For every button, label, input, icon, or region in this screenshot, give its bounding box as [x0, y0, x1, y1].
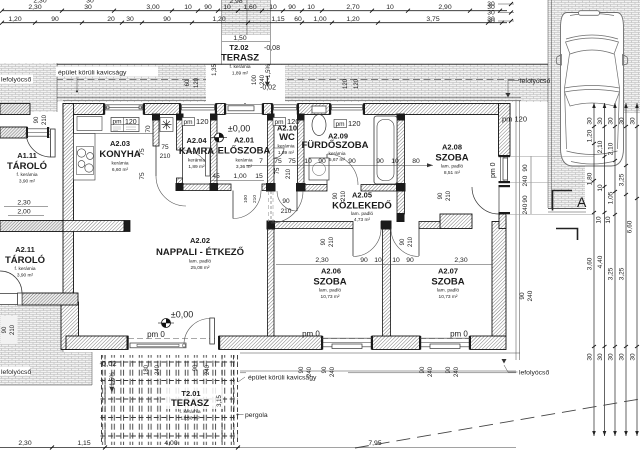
partition nappali / szoba divider vertical — [268, 229, 275, 337]
entrance door top (A2 lakas) — [224, 104, 264, 115]
svg-text:4,40: 4,40 — [597, 255, 604, 268]
dims inside A1.11 — [4, 200, 48, 216]
entrance arrow triangle — [237, 96, 254, 105]
svg-text:kerámia: kerámia — [111, 161, 128, 167]
svg-text:8,51 m²: 8,51 m² — [444, 170, 461, 176]
gravel left lower block — [0, 305, 92, 385]
window tags pm 120 top — [111, 118, 139, 132]
svg-text:30: 30 — [84, 4, 92, 11]
door kamra arc — [183, 150, 211, 178]
windows top wall — [103, 104, 365, 115]
svg-text:WC: WC — [279, 132, 295, 143]
neighbour walls left (A1.11 / A2.11) — [0, 104, 78, 306]
svg-text:75: 75 — [139, 172, 146, 180]
dimension chain row 1 top — [2, 4, 507, 11]
svg-text:90: 90 — [333, 192, 339, 199]
svg-text:1,50: 1,50 — [233, 35, 246, 42]
svg-text:20: 20 — [107, 16, 115, 23]
svg-text:T2.01: T2.01 — [181, 389, 200, 398]
svg-text:240: 240 — [522, 175, 529, 186]
svg-text:10: 10 — [304, 158, 312, 165]
svg-text:120: 120 — [125, 119, 137, 126]
svg-text:1,00: 1,00 — [233, 173, 246, 180]
svg-text:210: 210 — [329, 236, 335, 247]
door dim 75/210 wc rotated — [275, 167, 292, 179]
svg-text:90: 90 — [322, 366, 328, 373]
svg-text:kerámia: kerámia — [235, 158, 252, 164]
svg-text:pm: pm — [113, 119, 122, 126]
door dim 75/210 konyha — [160, 144, 171, 160]
boiler symbol konyha — [160, 118, 173, 132]
svg-text:180: 180 — [144, 364, 150, 375]
svg-text:T2.02: T2.02 — [229, 43, 248, 52]
partition konyha right — [153, 115, 159, 147]
room label A2.03 KONYHA — [99, 139, 140, 173]
door szoba A2.06 arc — [353, 229, 381, 257]
room label A2.04 KAMRA — [179, 136, 214, 170]
svg-text:10: 10 — [307, 4, 315, 11]
window right wall A2.08 (pm 0) — [499, 155, 511, 183]
svg-text:3,25: 3,25 — [619, 267, 626, 280]
svg-text:f. kerámia: f. kerámia — [179, 409, 200, 415]
svg-text:1,00: 1,00 — [313, 16, 326, 23]
building exterior top wall — [63, 104, 510, 115]
gravel edge lines bottom — [240, 370, 516, 372]
partition konyha stub wall — [63, 221, 130, 232]
svg-text:120: 120 — [194, 77, 200, 88]
partition wc right — [298, 115, 305, 192]
door dim rotated A1.11 — [34, 114, 48, 125]
windows bottom wall — [321, 336, 471, 350]
room label A2.01 ELOSZOBA — [218, 136, 271, 171]
lefolyocso label bottom left — [0, 367, 31, 377]
svg-text:10: 10 — [374, 257, 382, 264]
wall A2.08 / A2.07 divider — [440, 214, 506, 229]
furdo washing machine — [309, 158, 329, 180]
svg-text:pm: pm — [184, 119, 193, 126]
lefolyocso label bottom right — [502, 359, 550, 377]
svg-text:1,5%: 1,5% — [110, 372, 116, 386]
partition furdo / szoba A2.08 — [397, 115, 405, 215]
section mark A top — [553, 191, 588, 211]
door right wall A2.08 — [472, 185, 510, 214]
svg-text:pm: pm — [336, 121, 345, 128]
svg-text:90: 90 — [522, 164, 529, 172]
konyha dim 70/75/75 right — [139, 115, 170, 191]
svg-text:A2.07: A2.07 — [438, 267, 458, 276]
svg-text:90: 90 — [420, 366, 426, 373]
wc corner basin — [274, 148, 284, 158]
svg-text:90: 90 — [299, 366, 305, 373]
svg-text:kerámia: kerámia — [328, 151, 345, 157]
svg-text:75: 75 — [274, 158, 282, 165]
small 30 dims top right — [487, 1, 514, 25]
svg-text:90: 90 — [193, 364, 199, 371]
partition wc-furdo bottom — [298, 185, 398, 192]
svg-text:2,30: 2,30 — [18, 440, 31, 447]
svg-text:A2.08: A2.08 — [442, 143, 462, 152]
svg-text:90: 90 — [400, 238, 406, 245]
room label A2.05 KOZLEKEDO — [332, 191, 392, 224]
svg-text:pm 120: pm 120 — [502, 115, 527, 124]
entrance label A2 LAKAS — [235, 89, 255, 94]
svg-text:4,73 m²: 4,73 m² — [354, 217, 371, 223]
gravel band top (kavicsagy) — [35, 64, 548, 102]
svg-text:3,75: 3,75 — [426, 16, 439, 23]
svg-text:6,60: 6,60 — [627, 220, 634, 233]
svg-text:A2.04: A2.04 — [186, 136, 207, 145]
svg-text:1,15: 1,15 — [271, 16, 284, 23]
svg-text:6,60 m²: 6,60 m² — [112, 167, 129, 173]
svg-text:7: 7 — [259, 158, 263, 165]
svg-text:240: 240 — [428, 366, 434, 377]
svg-text:lefolyócső: lefolyócső — [520, 78, 550, 85]
svg-text:90: 90 — [522, 195, 529, 203]
svg-text:120: 120 — [354, 78, 360, 89]
door wc arc — [277, 191, 297, 211]
svg-text:30: 30 — [619, 353, 626, 361]
svg-text:10: 10 — [392, 257, 400, 264]
door konyha opening arc — [156, 146, 186, 206]
svg-text:3,60: 3,60 — [587, 257, 594, 270]
partition kamra left — [177, 115, 183, 185]
svg-text:épület körüli kavicságy: épület körüli kavicságy — [58, 70, 127, 77]
interior dim row y177 eloszoba door — [210, 173, 264, 181]
interior dim row y163 — [246, 158, 433, 167]
svg-text:210: 210 — [252, 195, 258, 203]
right chains labels — [587, 117, 637, 361]
svg-text:f. kerámia: f. kerámia — [14, 266, 35, 272]
kavicsagy label bottom — [238, 372, 348, 383]
svg-text:2,10: 2,10 — [597, 140, 604, 153]
svg-text:A2.01: A2.01 — [234, 136, 254, 145]
svg-text:30: 30 — [587, 353, 594, 361]
svg-text:120: 120 — [287, 117, 300, 126]
svg-text:2,90: 2,90 — [438, 4, 451, 11]
svg-text:30: 30 — [608, 353, 615, 361]
right chains arrowheads top/bottom — [592, 103, 639, 436]
exterior left wall — [61, 104, 79, 350]
bottom dim 7,95 — [238, 440, 520, 448]
room label A2.07 SZOBA — [431, 267, 464, 301]
svg-text:1,15: 1,15 — [77, 440, 90, 447]
room label A2.06 SZOBA — [313, 267, 346, 301]
radiator eloszoba — [206, 148, 211, 176]
svg-text:90: 90 — [204, 4, 212, 11]
window A1.11 top wall — [26, 127, 49, 138]
svg-text:75: 75 — [161, 144, 169, 151]
svg-text:TERASZ: TERASZ — [171, 398, 209, 409]
svg-text:2,10: 2,10 — [608, 142, 615, 155]
door eloszoba-kozlekedo arc (90/210) — [271, 191, 303, 223]
svg-text:240: 240 — [527, 290, 534, 301]
tick marks row2 — [0, 21, 504, 25]
svg-text:60: 60 — [185, 79, 191, 86]
svg-text:210: 210 — [281, 208, 292, 215]
svg-text:10: 10 — [391, 158, 399, 165]
svg-text:30: 30 — [86, 0, 94, 5]
door furdoszoba arc — [327, 154, 358, 185]
svg-text:90: 90 — [163, 16, 171, 23]
svg-text:210: 210 — [160, 153, 171, 160]
svg-text:90: 90 — [321, 238, 327, 245]
svg-text:210: 210 — [42, 114, 48, 125]
dimension chain row 2 top — [2, 16, 507, 23]
svg-text:75: 75 — [139, 148, 146, 156]
section mark bottom — [556, 229, 578, 241]
svg-text:10: 10 — [386, 4, 394, 11]
door dims rotated at szoba doors — [321, 190, 452, 247]
svg-text:30: 30 — [126, 16, 134, 23]
svg-text:A2.03: A2.03 — [110, 139, 130, 148]
room label A2.08 SZOBA — [435, 143, 468, 177]
T2.02 terasz labels top — [206, 35, 285, 103]
partition wc left — [268, 115, 275, 185]
svg-text:lam. padló: lam. padló — [189, 259, 211, 265]
svg-text:10,73 m²: 10,73 m² — [439, 294, 458, 300]
svg-text:SZOBA: SZOBA — [435, 153, 468, 164]
kitchen counter — [74, 117, 154, 181]
svg-text:lam. padló: lam. padló — [351, 211, 373, 217]
svg-text:TERASZ: TERASZ — [221, 53, 259, 64]
svg-text:120: 120 — [196, 117, 209, 126]
partition kozlekedo bottom — [268, 222, 441, 229]
svg-text:KONYHA: KONYHA — [99, 149, 140, 160]
svg-text:2,30: 2,30 — [454, 257, 467, 264]
window dims rotated below bottom wall — [299, 358, 476, 377]
svg-text:3,15: 3,15 — [217, 395, 223, 407]
gravel parking area right — [548, 0, 640, 212]
partition kamra right — [211, 115, 218, 185]
svg-text:NAPPALI - ÉTKEZŐ: NAPPALI - ÉTKEZŐ — [156, 246, 244, 258]
svg-text:1,20: 1,20 — [212, 16, 225, 23]
svg-text:30: 30 — [587, 117, 594, 125]
svg-text:240: 240 — [307, 366, 313, 377]
junction blocks — [152, 114, 406, 230]
dim 90/240 right wall lower — [519, 290, 534, 301]
svg-text:240: 240 — [205, 364, 211, 375]
svg-text:2,00: 2,00 — [17, 209, 30, 216]
kavicsagy label top — [56, 67, 158, 93]
svg-text:4,00: 4,00 — [164, 440, 177, 447]
stove burners — [77, 147, 94, 175]
svg-text:FÜRDŐSZOBA: FÜRDŐSZOBA — [301, 139, 368, 151]
svg-text:210: 210 — [10, 324, 16, 335]
svg-text:30: 30 — [487, 18, 495, 25]
svg-text:kerámia: kerámia — [188, 158, 205, 164]
svg-text:A2.11: A2.11 — [15, 245, 35, 254]
door A2.11 leaf and arc — [0, 271, 22, 305]
bottom dim line left — [0, 440, 240, 450]
interior dim row y262 szoba — [276, 257, 492, 265]
svg-text:10,73 m²: 10,73 m² — [321, 294, 340, 300]
room label A2.11 TAROLO — [5, 245, 45, 279]
partition szoba A2.06/A2.07 divider — [383, 229, 391, 337]
door dim A2.11 rotated — [1, 316, 18, 344]
svg-text:25,08 m²: 25,08 m² — [191, 265, 210, 271]
pergola label — [237, 412, 268, 419]
svg-text:70: 70 — [145, 125, 152, 133]
svg-text:90: 90 — [2, 326, 8, 333]
svg-text:210: 210 — [408, 236, 414, 247]
svg-text:f. kerámia: f. kerámia — [16, 172, 37, 178]
terrace T2.01 grid — [101, 355, 239, 445]
dim 90/240 right of building (A2.08 openings) — [522, 156, 531, 214]
car in parking — [556, 11, 628, 166]
svg-text:1,20: 1,20 — [587, 129, 594, 142]
gravel left upper block — [0, 63, 57, 112]
svg-text:10: 10 — [605, 216, 612, 224]
svg-text:3,25: 3,25 — [619, 173, 626, 186]
svg-text:90: 90 — [282, 198, 290, 205]
furdo bathtub — [374, 116, 397, 184]
svg-text:kerámia: kerámia — [277, 144, 294, 150]
door eloszoba bottom opening arc — [233, 191, 261, 219]
svg-text:30: 30 — [630, 353, 637, 361]
svg-text:pm 0: pm 0 — [147, 330, 165, 339]
svg-text:30: 30 — [608, 117, 615, 125]
svg-text:90: 90 — [288, 4, 296, 11]
svg-text:±0,00: ±0,00 — [171, 310, 193, 320]
svg-text:lam. padló: lam. padló — [437, 288, 459, 294]
svg-text:lefolyócső: lefolyócső — [1, 77, 31, 84]
svg-text:1,35: 1,35 — [212, 64, 218, 76]
svg-text:120: 120 — [343, 78, 349, 89]
survey marker nappali — [158, 319, 174, 328]
svg-text:90: 90 — [348, 158, 356, 165]
svg-text:45: 45 — [212, 173, 220, 180]
svg-text:1,89 m²: 1,89 m² — [232, 71, 249, 77]
svg-text:ELŐSZOBA: ELŐSZOBA — [218, 145, 271, 157]
svg-text:lefolyócső: lefolyócső — [519, 370, 549, 377]
big sliding door nappali bottom (pm 0) — [127, 318, 221, 350]
svg-text:A: A — [577, 194, 587, 210]
svg-text:2,30: 2,30 — [28, 4, 41, 11]
svg-text:10: 10 — [223, 4, 231, 11]
svg-text:2,30: 2,30 — [17, 200, 30, 207]
svg-text:pergola: pergola — [245, 412, 268, 419]
right dimension chains verticals — [594, 103, 637, 436]
terrace rotated dims — [110, 364, 223, 407]
svg-text:2,30: 2,30 — [315, 257, 328, 264]
svg-text:lefolyócső: lefolyócső — [1, 369, 31, 376]
svg-text:90: 90 — [34, 116, 40, 123]
svg-text:1,80: 1,80 — [587, 172, 594, 185]
svg-text:1,20: 1,20 — [346, 16, 359, 23]
svg-text:90: 90 — [51, 16, 59, 23]
svg-text:5,67 m²: 5,67 m² — [329, 157, 346, 163]
door A1.11 leaf and arc — [26, 129, 55, 157]
svg-text:3,25: 3,25 — [608, 267, 615, 280]
svg-text:30: 30 — [597, 353, 604, 361]
svg-text:KAMRA: KAMRA — [179, 146, 214, 157]
svg-text:10: 10 — [184, 4, 192, 11]
svg-text:3,90 m²: 3,90 m² — [19, 179, 36, 185]
lefolyocso label top left — [0, 75, 33, 84]
exterior right wall upper (A2.08) — [499, 104, 511, 157]
svg-text:-0,08: -0,08 — [264, 45, 280, 52]
exterior right wall lower — [492, 222, 506, 337]
room label A2.10 WC — [277, 124, 297, 157]
svg-text:90: 90 — [376, 158, 384, 165]
svg-text:A2.02: A2.02 — [190, 236, 210, 245]
eresz line right of building — [515, 101, 517, 361]
T2.02 small rotated dims — [185, 64, 272, 89]
svg-text:1,89 m²: 1,89 m² — [188, 164, 205, 170]
svg-text:pm: pm — [275, 119, 284, 126]
connector lines building to chains — [506, 157, 594, 215]
svg-text:100: 100 — [243, 195, 249, 203]
svg-text:1,60: 1,60 — [243, 4, 256, 11]
survey marker eloszoba — [211, 133, 227, 142]
svg-text:3,36 m²: 3,36 m² — [236, 164, 253, 170]
svg-text:12,06 m²: 12,06 m² — [181, 416, 200, 422]
svg-text:30: 30 — [630, 117, 637, 125]
svg-text:pm 0: pm 0 — [302, 330, 320, 339]
120 120 rotated dims in gravel band — [343, 78, 360, 89]
svg-text:2,30: 2,30 — [33, 0, 46, 5]
svg-text:3,90 m²: 3,90 m² — [17, 273, 34, 279]
door dim 100/210 eloszoba — [243, 195, 258, 203]
svg-text:90: 90 — [519, 292, 526, 300]
svg-text:A1.11: A1.11 — [17, 151, 37, 160]
svg-text:210: 210 — [286, 168, 292, 179]
svg-text:80: 80 — [412, 158, 420, 165]
svg-text:30: 30 — [597, 117, 604, 125]
svg-text:210: 210 — [341, 190, 347, 201]
svg-text:A2.06: A2.06 — [321, 267, 341, 276]
svg-text:10: 10 — [269, 4, 277, 11]
svg-text:120: 120 — [348, 119, 361, 128]
door dim 90/210 kozlekedo — [281, 198, 292, 215]
svg-text:240: 240 — [330, 366, 336, 377]
svg-text:30: 30 — [487, 1, 495, 8]
lefolyocso label top right — [506, 78, 551, 98]
gravel walkway strip to entrance — [222, 0, 271, 103]
bottom dim 4,00 terrace — [164, 440, 177, 447]
svg-text:240: 240 — [155, 364, 161, 375]
furdo toilet — [312, 106, 326, 136]
svg-text:pm 0: pm 0 — [450, 330, 468, 339]
svg-text:30: 30 — [619, 117, 626, 125]
svg-text:3,00: 3,00 — [146, 4, 159, 11]
svg-text:TÁROLÓ: TÁROLÓ — [5, 254, 45, 266]
svg-text:100: 100 — [252, 74, 258, 85]
svg-text:30: 30 — [487, 10, 495, 17]
svg-text:lam. padló: lam. padló — [441, 164, 463, 170]
svg-text:240: 240 — [522, 203, 529, 214]
svg-text:1,89 m²: 1,89 m² — [278, 150, 295, 156]
room label A2.02 NAPPALI-ETKEZO — [156, 236, 244, 271]
svg-text:pm 0: pm 0 — [490, 162, 497, 178]
svg-text:90: 90 — [360, 257, 368, 264]
svg-text:90: 90 — [446, 366, 452, 373]
svg-text:f. kerámia: f. kerámia — [229, 64, 250, 70]
svg-text:TÁROLÓ: TÁROLÓ — [7, 160, 47, 172]
svg-text:SZOBA: SZOBA — [431, 277, 464, 288]
right chains tick slashes — [592, 125, 639, 348]
svg-text:15: 15 — [255, 173, 263, 180]
svg-text:1,20: 1,20 — [8, 16, 21, 23]
svg-text:10: 10 — [596, 216, 603, 224]
partial top row fragments — [33, 0, 242, 5]
room label A1.11 TAROLO — [7, 151, 47, 185]
door szoba A2.07 arc — [391, 229, 419, 257]
svg-text:A2.05: A2.05 — [352, 191, 372, 200]
dashed guide lines nappali — [156, 146, 273, 222]
partition eloszoba bottom — [177, 184, 275, 191]
svg-text:SZOBA: SZOBA — [313, 277, 346, 288]
